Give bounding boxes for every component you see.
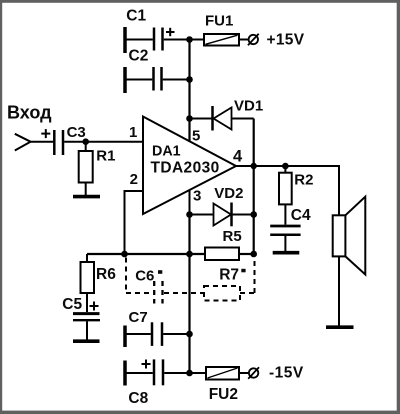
node pin3/VD2 <box>186 211 193 218</box>
svg-text:C4: C4 <box>291 207 311 224</box>
capacitor C2 <box>127 67 190 91</box>
resistor R5 <box>205 248 239 261</box>
ground bar at C7 <box>123 326 127 348</box>
speaker BA1 <box>333 197 366 327</box>
wire rail to VD1 <box>190 118 213 120</box>
ground bar at C8 <box>123 361 127 386</box>
capacitor C7 <box>127 322 190 346</box>
svg-text:C6: C6 <box>135 267 154 284</box>
svg-text:-15V: -15V <box>269 364 304 381</box>
node C8/rail <box>186 370 193 377</box>
svg-text:VD2: VD2 <box>214 185 243 202</box>
node R1/input junction <box>82 138 89 145</box>
svg-text:R5: R5 <box>223 228 242 245</box>
wire +15V rail <box>188 40 190 143</box>
wire pin 5 <box>189 119 191 143</box>
node pin2/feedback <box>121 251 128 258</box>
svg-text:1: 1 <box>129 124 137 141</box>
fuse FU1 <box>204 34 248 46</box>
wire output rail <box>253 119 255 256</box>
wire rail to FU2 <box>190 372 207 374</box>
node VD2/output <box>250 211 257 218</box>
node VD1/rail junction <box>186 115 193 122</box>
resistor R6 <box>81 254 95 312</box>
svg-text:C2: C2 <box>129 47 149 64</box>
node R5/output <box>250 251 257 258</box>
capacitor C8 <box>127 359 190 385</box>
wire pin 4 to output node <box>236 165 254 167</box>
terminal -15V <box>248 367 259 378</box>
svg-text:2: 2 <box>130 171 138 188</box>
svg-text:R7: R7 <box>219 267 239 284</box>
svg-text:+15V: +15V <box>267 31 305 48</box>
capacitor C5 <box>73 302 100 340</box>
wire C3 to pin 1 <box>64 141 143 143</box>
wire output to speaker <box>254 166 339 215</box>
svg-text:C5: C5 <box>62 296 82 313</box>
wire -15V rail <box>188 215 190 374</box>
input connector <box>15 134 31 151</box>
svg-text:4: 4 <box>233 148 243 166</box>
svg-text:TDA2030: TDA2030 <box>151 160 220 177</box>
svg-text:VD1: VD1 <box>234 98 263 115</box>
ground below R1 <box>73 195 100 199</box>
svg-text:C1: C1 <box>126 7 146 24</box>
svg-text:C7: C7 <box>129 309 148 326</box>
svg-text:FU1: FU1 <box>205 13 233 30</box>
resistor R1 <box>79 142 93 195</box>
svg-text:C8: C8 <box>128 390 148 407</box>
diode VD1 <box>213 106 254 131</box>
resistor R2 <box>279 166 292 225</box>
ground bar at C2 <box>123 67 127 93</box>
ground below speaker <box>326 325 354 329</box>
capacitor C3 <box>41 129 63 155</box>
node C2/rail junction <box>186 76 193 83</box>
wire pin3 to VD2 <box>190 214 214 216</box>
svg-text:5: 5 <box>192 127 200 144</box>
svg-text:R2: R2 <box>294 172 313 189</box>
capacitor C4 <box>270 226 300 251</box>
fuse FU2 <box>206 367 249 380</box>
svg-text:R6: R6 <box>96 266 116 283</box>
capacitor C6 (optional, dashed) <box>126 258 190 304</box>
node C7/rail <box>186 331 193 338</box>
svg-text:R1: R1 <box>96 147 115 164</box>
node C1/rail junction <box>186 36 193 43</box>
svg-text:FU2: FU2 <box>209 386 238 403</box>
svg-text:DA1: DA1 <box>152 144 181 160</box>
diode VD2 <box>214 203 254 227</box>
node pin3 rail/feedback <box>186 251 193 258</box>
ground bar at C1 <box>123 27 127 53</box>
svg-text:3: 3 <box>193 188 201 205</box>
terminal +15V <box>248 34 259 45</box>
wire feedback <box>87 253 254 255</box>
op-amp DA1 TDA2030 <box>143 117 236 215</box>
wire rail to FU1 <box>190 39 205 41</box>
resistor R7 (optional, dashed) <box>191 261 255 301</box>
capacitor C1 <box>127 28 190 51</box>
node output/pin4 <box>251 163 257 169</box>
ground below C5 <box>73 339 100 343</box>
wire pin 3 <box>189 190 191 215</box>
wire input to C3 <box>31 141 54 143</box>
svg-text:Вход: Вход <box>7 103 52 123</box>
wire pin 2 to feedback node <box>125 191 144 254</box>
node R2/output <box>282 163 289 170</box>
ground below C4 <box>273 251 300 255</box>
svg-text:C3: C3 <box>67 124 86 141</box>
